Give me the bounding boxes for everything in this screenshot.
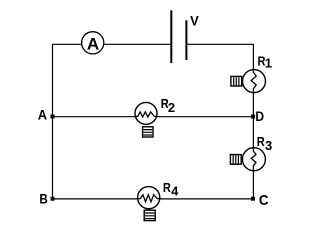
- svg-text:V: V: [190, 13, 199, 29]
- svg-text:C: C: [259, 193, 269, 209]
- svg-text:1: 1: [265, 56, 272, 71]
- svg-text:R: R: [257, 134, 266, 149]
- svg-text:B: B: [39, 191, 47, 207]
- svg-text:A: A: [38, 107, 47, 123]
- svg-text:D: D: [255, 108, 264, 124]
- svg-text:3: 3: [265, 138, 272, 153]
- svg-text:A: A: [87, 35, 99, 54]
- svg-text:4: 4: [171, 183, 179, 198]
- svg-text:2: 2: [168, 100, 175, 115]
